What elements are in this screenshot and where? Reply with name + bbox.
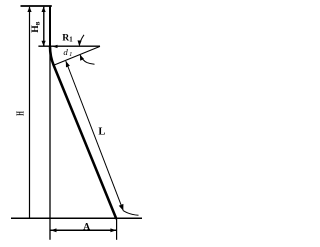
well profile (vertical section, build curve R1, tangent section) [49,6,51,47]
svg-text:L: L [98,127,105,138]
svg-text:H: H [16,111,27,116]
dimension line Hb [43,7,45,46]
arrowhead Hb bottom [42,41,46,47]
extension line below well end [116,219,118,240]
dimension line H [29,7,31,218]
arrowhead H top [27,7,31,12]
vertical axis extension line below kickoff [49,47,51,240]
arrowhead L top [66,61,70,67]
arrowhead A left [51,228,57,232]
angle arc upper arrow [79,35,84,46]
hook leader at bottom of L [123,211,138,216]
arrowhead L bottom [119,204,124,211]
arrowhead A right [110,228,116,232]
dimension line A [50,229,116,231]
dimension line L [66,61,124,211]
kickoff extension + radius line R1 (horizontal) [38,45,100,47]
arrowhead Hb top [42,7,46,12]
radius line to tangent point [54,46,100,65]
datum line (bottom horizontal line) [11,217,142,219]
surface line (top ground line) [21,5,52,7]
angle arc lower arrow with tail [80,55,94,64]
arrowhead R1 (points left to kickoff point) [52,45,58,48]
svg-text:A: A [83,222,90,232]
